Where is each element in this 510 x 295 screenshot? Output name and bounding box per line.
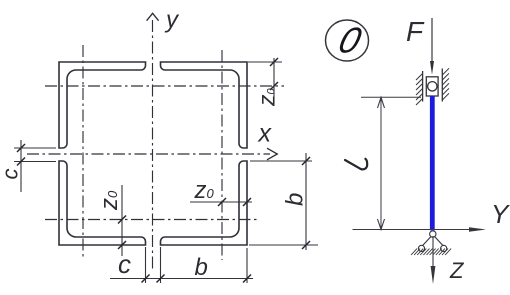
svg-text:Z: Z: [449, 258, 465, 283]
svg-text:c: c: [0, 169, 23, 180]
svg-text:F: F: [406, 16, 425, 47]
svg-text:x: x: [258, 120, 273, 148]
svg-text:y: y: [164, 7, 180, 34]
svg-text:b: b: [195, 254, 208, 281]
svg-text:Y: Y: [491, 199, 510, 229]
svg-text:c: c: [118, 249, 131, 279]
svg-text:b: b: [282, 193, 309, 206]
